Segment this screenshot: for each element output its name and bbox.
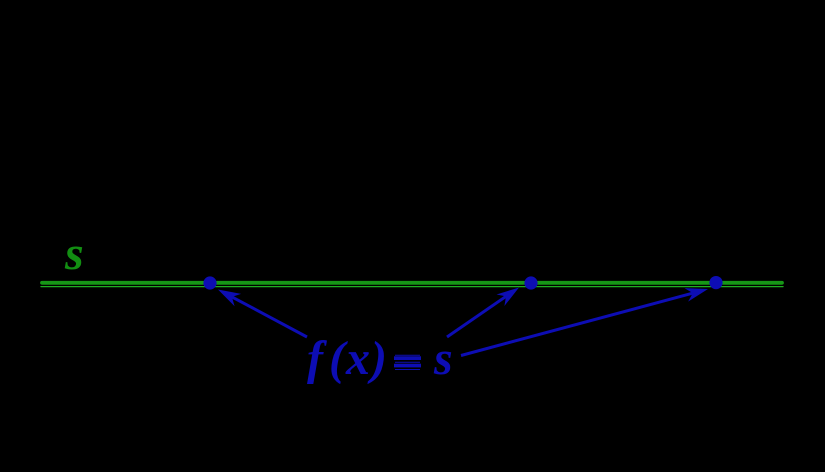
label f of f(x) (blue) — [307, 335, 323, 383]
arrowhead at point 3 — [685, 288, 709, 302]
label s (green) — [65, 230, 84, 278]
arrow shaft to point 1 — [229, 295, 307, 337]
equals sign echo lines — [395, 355, 420, 369]
label right paren (blue) — [371, 335, 387, 383]
arrow shaft to point 2 — [447, 295, 509, 337]
horizontal line y=s echo (thin green) — [41, 286, 783, 288]
equals sign lower bar — [394, 364, 421, 368]
label x (blue) — [346, 335, 370, 383]
equals sign upper bar — [394, 356, 421, 360]
point 1 — [203, 276, 216, 289]
point 2 — [524, 276, 537, 289]
label s of f(x)=s (blue) — [434, 335, 453, 383]
arrow shaft to point 3 — [461, 292, 696, 355]
arrowhead at point 2 — [497, 288, 520, 307]
point 3 — [709, 276, 722, 289]
horizontal line y=s (thick green) — [42, 281, 782, 285]
arrowhead at point 1 — [218, 290, 241, 307]
label left paren (blue) — [329, 335, 345, 383]
